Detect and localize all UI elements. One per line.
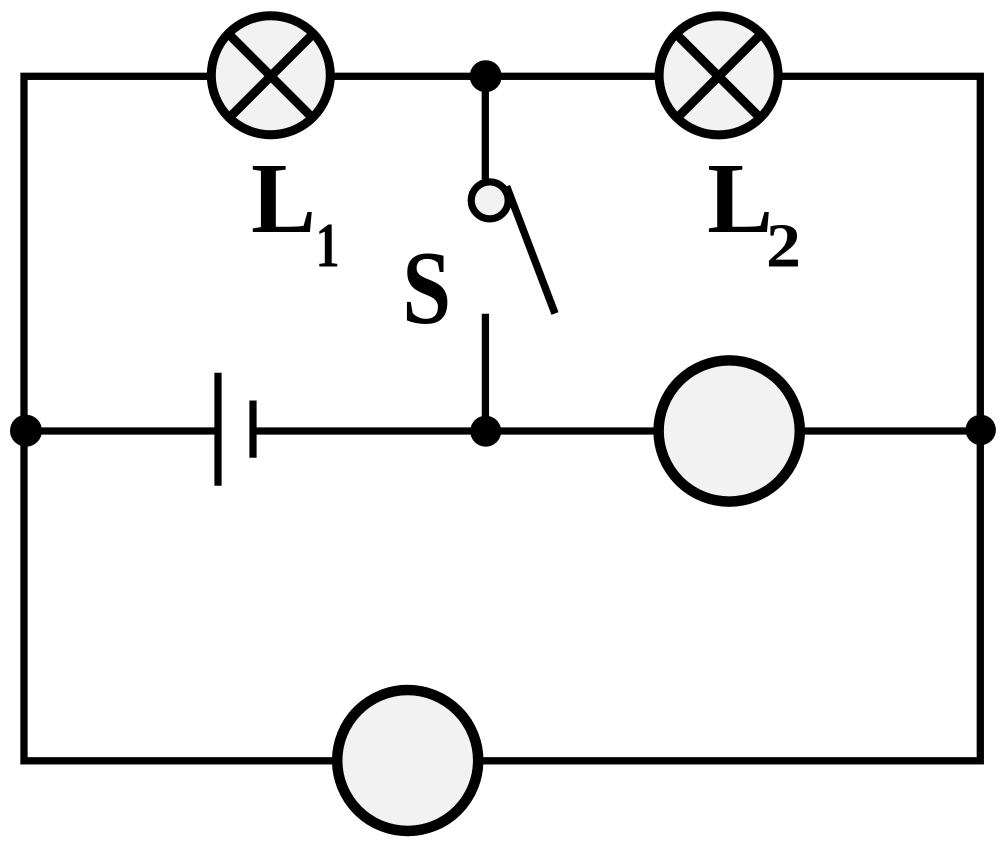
meter A2 (bottom row circle)	[337, 690, 478, 831]
battery long plate (positive)	[214, 373, 221, 486]
node: middle junction	[470, 416, 501, 447]
node: left junction	[10, 415, 42, 447]
switch S: lower stub wire	[482, 314, 489, 431]
svg-text:L: L	[707, 142, 773, 254]
label L2	[707, 142, 773, 254]
node: right junction	[966, 415, 996, 445]
switch S: upper stub wire	[482, 76, 489, 180]
label L1	[251, 143, 316, 254]
battery short plate (negative)	[249, 401, 256, 458]
lamp L1	[211, 16, 330, 135]
node: top junction	[470, 60, 502, 92]
wire: middle horizontal right segment (battery to right node)	[257, 427, 981, 434]
label S	[402, 230, 451, 346]
svg-text:S: S	[402, 230, 451, 346]
switch S: pivot circle	[471, 182, 508, 219]
svg-text:1: 1	[315, 211, 339, 282]
svg-text:2: 2	[766, 212, 801, 281]
switch S: blade	[507, 186, 555, 313]
wire: middle horizontal left segment (left node to battery)	[24, 427, 215, 434]
wire: outer loop rectangle	[24, 76, 980, 761]
lamp L2	[659, 16, 778, 135]
meter A1 (middle row circle)	[659, 360, 800, 501]
svg-text:L: L	[251, 143, 316, 254]
